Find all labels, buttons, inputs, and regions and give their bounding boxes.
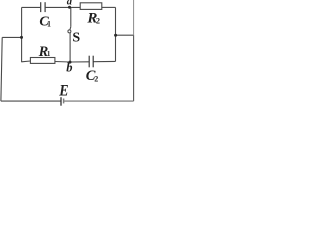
svg-text:E: E bbox=[58, 82, 68, 99]
svg-text:1: 1 bbox=[47, 20, 51, 29]
svg-text:a: a bbox=[67, 0, 72, 8]
svg-text:2: 2 bbox=[94, 74, 98, 83]
svg-text:b: b bbox=[66, 60, 72, 74]
svg-text:2: 2 bbox=[96, 16, 100, 25]
svg-text:S: S bbox=[72, 30, 80, 45]
svg-text:1: 1 bbox=[47, 50, 51, 58]
